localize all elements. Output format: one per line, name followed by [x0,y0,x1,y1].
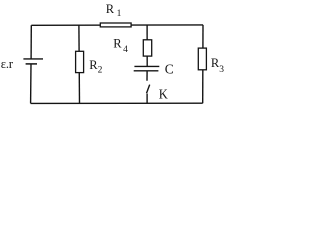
svg-text:R: R [106,2,115,16]
svg-text:r: r [9,56,14,71]
svg-text:4: 4 [123,45,128,55]
svg-text:R: R [113,37,122,51]
svg-text:1: 1 [117,9,122,19]
svg-text:3: 3 [219,65,224,75]
svg-text:C: C [165,63,174,78]
svg-text:K: K [159,87,168,102]
svg-text:2: 2 [98,65,103,75]
